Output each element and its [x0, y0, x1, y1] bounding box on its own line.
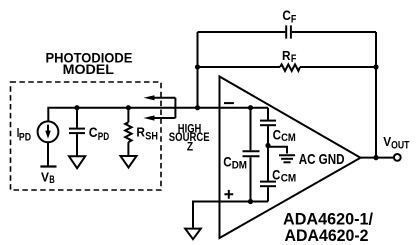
resistor RSH [125, 108, 131, 156]
svg-text:CM: CM [281, 132, 296, 144]
label CF [282, 8, 296, 26]
node dot AC GND junction [265, 143, 270, 148]
node dot CDM top [248, 105, 253, 110]
svg-text:B: B [49, 174, 55, 186]
svg-text:F: F [291, 13, 297, 25]
label ADA4620-1/ADA4620-2 [283, 211, 373, 245]
capacitor CDM [243, 108, 260, 202]
svg-text:C: C [282, 8, 291, 23]
wire output [361, 157, 394, 159]
label VOUT [383, 134, 409, 152]
AC ground symbol [268, 147, 295, 163]
svg-text:CM: CM [281, 173, 297, 185]
svg-text:PD: PD [98, 131, 109, 143]
svg-text:C: C [273, 128, 282, 143]
svg-text:F: F [291, 53, 297, 65]
label HIGH SOURCE Z [169, 123, 210, 153]
label CCM lower [272, 168, 296, 185]
label CCM upper [273, 128, 296, 145]
svg-text:Z: Z [187, 142, 193, 154]
ground under CPD [69, 156, 85, 168]
node dot output feedback tap [373, 155, 378, 160]
capacitor CPD [69, 108, 85, 157]
svg-text:ADA4620-2: ADA4620-2 [285, 227, 369, 245]
svg-text:PD: PD [19, 131, 31, 143]
wire left feedback vertical [197, 32, 199, 108]
svg-text:C: C [89, 125, 98, 140]
resistor RF [280, 64, 300, 71]
node dot feedback tap [195, 105, 200, 110]
label VB [41, 169, 55, 186]
svg-text:DM: DM [232, 160, 247, 172]
wire main input node [48, 108, 268, 121]
capacitor CF [286, 25, 291, 38]
svg-text:SH: SH [145, 130, 158, 142]
wire right feedback vertical [375, 32, 377, 158]
VB terminal bar [40, 165, 56, 167]
ground at non-inverting input [185, 229, 201, 240]
capacitor CCM lower [260, 146, 276, 202]
label CPD [89, 125, 110, 143]
label CDM [223, 155, 247, 172]
node dot CDM bottom [248, 199, 253, 204]
svg-text:V: V [41, 169, 49, 184]
ground under RSH [121, 156, 137, 168]
svg-text:C: C [272, 168, 280, 183]
wire non-inverting rail [193, 202, 268, 228]
label RSH [136, 124, 158, 142]
svg-text:AC GND: AC GND [299, 151, 345, 168]
label PHOTODIODE MODEL [46, 51, 133, 77]
svg-text:R: R [282, 48, 291, 63]
photodiode model dashed box [11, 82, 162, 190]
op-amp U1 triangle [220, 77, 361, 239]
wire CF top [198, 31, 377, 33]
svg-text:R: R [136, 124, 145, 139]
high source Z annotation arrows [144, 95, 176, 120]
svg-text:MODEL: MODEL [63, 62, 114, 77]
plus input sign [224, 190, 233, 199]
node dot RF right [373, 64, 378, 69]
label IPD [17, 125, 31, 143]
svg-text:C: C [223, 155, 232, 170]
wire inverting rail inside op-amp [220, 107, 269, 109]
output terminal circle [394, 154, 401, 161]
capacitor CCM upper [260, 108, 276, 146]
wire RF feedback [198, 66, 377, 68]
node dot RSH junction [126, 105, 131, 110]
node dot RF left [195, 64, 200, 69]
wire IPD bottom stub [47, 142, 49, 165]
current source IPD [38, 121, 59, 142]
node dot CPD junction [74, 105, 79, 110]
minus input sign [224, 102, 234, 104]
svg-text:OUT: OUT [391, 140, 410, 152]
label RF [282, 48, 297, 65]
